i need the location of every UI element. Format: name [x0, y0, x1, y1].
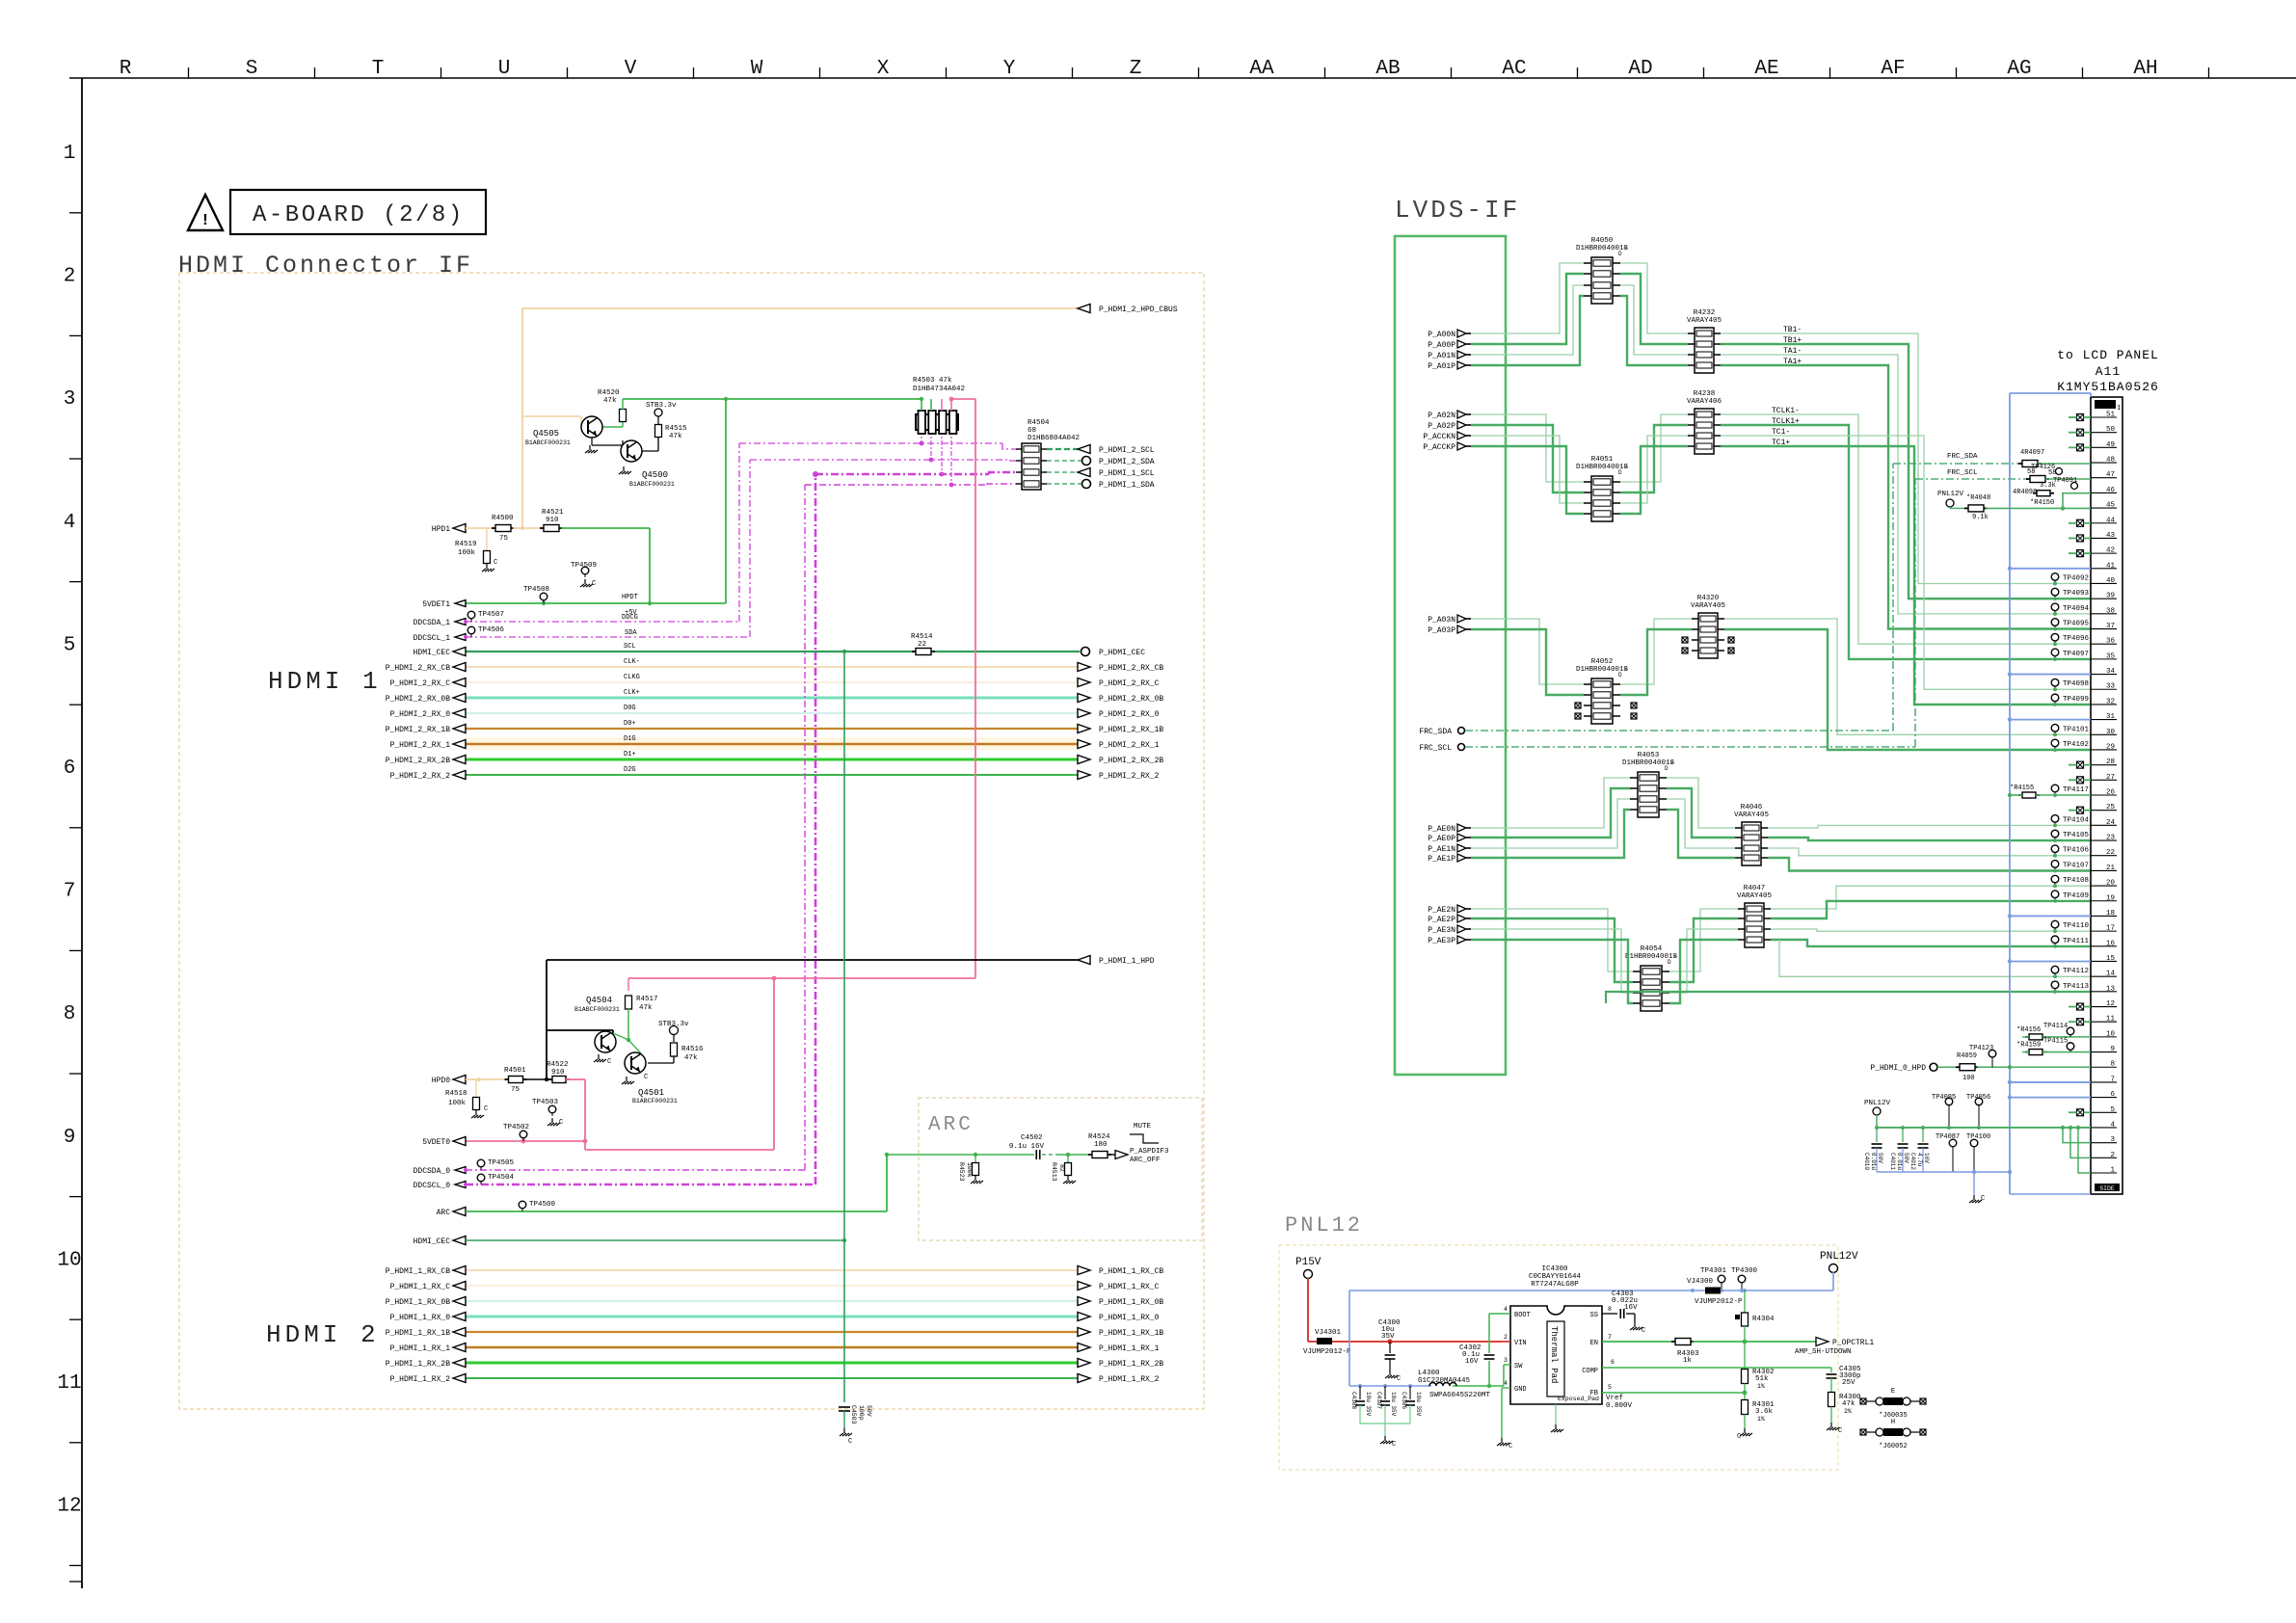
svg-text:P_AE1N: P_AE1N [1428, 845, 1455, 854]
svg-text:TP4509: TP4509 [571, 562, 597, 570]
svg-text:T: T [372, 58, 385, 80]
svg-text:11: 11 [2106, 1016, 2116, 1024]
svg-text:TP4300: TP4300 [1731, 1267, 1758, 1275]
svg-text:R4238: R4238 [1694, 390, 1716, 398]
svg-text:FRC_SDA: FRC_SDA [1419, 728, 1452, 736]
svg-text:P_HDMI_CEC: P_HDMI_CEC [1099, 649, 1145, 657]
svg-text:6: 6 [1611, 1359, 1615, 1366]
svg-text:TP4102: TP4102 [2063, 741, 2089, 749]
svg-text:SCL: SCL [624, 643, 636, 651]
svg-text:EN: EN [1590, 1340, 1598, 1347]
svg-text:43: 43 [2106, 532, 2116, 540]
svg-text:P_HDMI_2_RX_CB: P_HDMI_2_RX_CB [386, 664, 450, 673]
svg-text:47k: 47k [1842, 1400, 1855, 1408]
svg-text:B1ABCF000231: B1ABCF000231 [632, 1098, 678, 1104]
svg-text:C: C [559, 1119, 563, 1127]
svg-text:TP4095: TP4095 [2063, 621, 2090, 628]
svg-text:D1HB4734A042: D1HB4734A042 [913, 386, 965, 393]
svg-text:STB3.3v: STB3.3v [658, 1021, 689, 1028]
svg-text:<: < [1624, 666, 1628, 673]
svg-text:75: 75 [511, 1086, 521, 1094]
svg-text:C: C [1838, 1427, 1842, 1435]
svg-text:R: R [120, 58, 132, 80]
svg-text:TP4100: TP4100 [1966, 1133, 1990, 1141]
svg-text:34: 34 [2106, 668, 2116, 676]
svg-text:E: E [1891, 1388, 1895, 1396]
svg-text:TP4101: TP4101 [2063, 726, 2090, 733]
svg-text:TP4117: TP4117 [2063, 786, 2089, 794]
svg-text:1: 1 [64, 143, 76, 165]
svg-text:47k: 47k [669, 433, 682, 440]
svg-text:5VDET1: 5VDET1 [422, 600, 450, 609]
svg-text:*R4156: *R4156 [2016, 1026, 2041, 1034]
svg-text:20: 20 [2106, 880, 2116, 888]
svg-text:TP4104: TP4104 [2063, 816, 2090, 824]
svg-text:VJ4300: VJ4300 [1687, 1278, 1714, 1286]
svg-text:P_HDMI_2_RX_1B: P_HDMI_2_RX_1B [1099, 726, 1163, 734]
svg-text:DDCSDA_1: DDCSDA_1 [414, 619, 451, 627]
svg-text:27: 27 [2106, 774, 2115, 782]
svg-text:2%: 2% [1844, 1408, 1852, 1415]
svg-text:TP4502: TP4502 [503, 1124, 529, 1131]
svg-text:C: C [1397, 1375, 1401, 1383]
svg-text:R4051: R4051 [1591, 456, 1614, 464]
svg-text:3: 3 [1504, 1357, 1508, 1364]
svg-text:SS: SS [1590, 1312, 1598, 1319]
svg-text:33: 33 [2106, 683, 2116, 691]
svg-text:P_HDMI_1_RX_CB: P_HDMI_1_RX_CB [1099, 1267, 1163, 1276]
svg-text:0.01u: 0.01u [1870, 1153, 1877, 1170]
svg-text:R4232: R4232 [1694, 309, 1716, 317]
svg-text:TP4106: TP4106 [2063, 847, 2090, 855]
svg-text:P_HDMI_1_RX_2B: P_HDMI_1_RX_2B [1099, 1360, 1163, 1369]
svg-text:16V: 16V [1923, 1153, 1930, 1163]
svg-text:R4046: R4046 [1741, 804, 1763, 811]
svg-text:6: 6 [2110, 1091, 2115, 1099]
svg-text:R4500: R4500 [492, 515, 514, 522]
svg-text:P_ACCKP: P_ACCKP [1423, 443, 1455, 452]
svg-text:TP4097: TP4097 [2063, 651, 2089, 658]
svg-text:TP4126: TP4126 [2031, 464, 2055, 471]
svg-text:C: C [607, 1058, 611, 1066]
svg-text:2: 2 [64, 266, 76, 288]
svg-text:C: C [484, 1105, 488, 1113]
svg-text:28: 28 [2106, 758, 2115, 766]
svg-text:K1MY51BA0526: K1MY51BA0526 [2057, 380, 2159, 394]
svg-text:1%: 1% [1757, 1383, 1765, 1390]
svg-text:TP4091: TP4091 [2053, 477, 2077, 485]
svg-text:CLK+: CLK+ [624, 689, 640, 697]
svg-text:VJUMP2012-P: VJUMP2012-P [1695, 1298, 1743, 1306]
svg-text:100: 100 [1962, 1075, 1975, 1082]
svg-text:P_HDMI_1_RX_1: P_HDMI_1_RX_1 [1099, 1344, 1160, 1353]
svg-text:W: W [751, 58, 763, 80]
svg-text:HPD1: HPD1 [432, 525, 450, 534]
svg-text:P_AE2N: P_AE2N [1428, 906, 1455, 915]
svg-text:51k: 51k [1755, 1375, 1769, 1383]
svg-text:AG: AG [2007, 58, 2031, 80]
svg-text:P_HDMI_1_RX_2: P_HDMI_1_RX_2 [390, 1375, 451, 1384]
svg-text:P_A01P: P_A01P [1428, 362, 1455, 371]
svg-text:TA1+: TA1+ [1783, 358, 1802, 366]
svg-text:B1ABCF000231: B1ABCF000231 [525, 439, 571, 446]
svg-text:IC4300: IC4300 [1541, 1265, 1568, 1273]
svg-text:Thermal Pad: Thermal Pad [1549, 1326, 1559, 1383]
svg-text:TP4110: TP4110 [2063, 922, 2090, 930]
svg-text:AMP_SH-UTDOWN: AMP_SH-UTDOWN [1795, 1348, 1852, 1356]
svg-text:L4300: L4300 [1418, 1370, 1440, 1377]
svg-text:AC: AC [1502, 58, 1526, 80]
svg-text:D1HB6804A042: D1HB6804A042 [1028, 435, 1080, 442]
svg-text:R4523: R4523 [958, 1162, 965, 1182]
svg-text:P_HDMI_1_RX_0: P_HDMI_1_RX_0 [1099, 1314, 1160, 1322]
svg-text:P_HDMI_1_RX_C: P_HDMI_1_RX_C [1099, 1283, 1160, 1291]
svg-text:HDMI_CEC: HDMI_CEC [414, 649, 451, 657]
svg-text:4: 4 [2110, 1121, 2115, 1129]
svg-text:4.7u: 4.7u [1916, 1153, 1923, 1167]
svg-text:C4503: C4503 [850, 1405, 857, 1424]
svg-text:16V: 16V [1465, 1358, 1479, 1366]
svg-text:TP4092: TP4092 [2063, 574, 2089, 582]
svg-text:7: 7 [64, 881, 76, 903]
svg-text:TP4093: TP4093 [2063, 590, 2090, 598]
svg-text:32: 32 [2106, 698, 2115, 705]
svg-text:R4513: R4513 [1051, 1162, 1057, 1182]
svg-text:R4052: R4052 [1591, 658, 1614, 666]
svg-text:C: C [1981, 1195, 1985, 1203]
svg-text:TP4503: TP4503 [532, 1099, 559, 1106]
svg-text:P_HDMI_2_RX_1: P_HDMI_2_RX_1 [1099, 741, 1160, 750]
svg-text:P_HDMI_2_RX_CB: P_HDMI_2_RX_CB [1099, 664, 1163, 673]
svg-text:TP4109: TP4109 [2063, 892, 2089, 900]
svg-text:TP4114: TP4114 [2043, 1023, 2068, 1030]
svg-text:7: 7 [1608, 1334, 1612, 1341]
svg-text:TP4123: TP4123 [1969, 1045, 1993, 1052]
svg-text:TA1-: TA1- [1783, 347, 1802, 356]
svg-text:ARC: ARC [437, 1209, 451, 1217]
svg-text:22: 22 [2106, 849, 2115, 857]
svg-text:Q4501: Q4501 [638, 1088, 664, 1098]
svg-text:to LCD PANEL: to LCD PANEL [2057, 348, 2159, 362]
svg-text:P_HDMI_2_RX_C: P_HDMI_2_RX_C [1099, 679, 1160, 688]
svg-text:P_AE3P: P_AE3P [1428, 937, 1455, 945]
svg-text:TP4087: TP4087 [1936, 1133, 1960, 1141]
svg-text:HDMI 2: HDMI 2 [266, 1320, 380, 1349]
svg-text:4: 4 [64, 512, 76, 534]
svg-text:4: 4 [1504, 1306, 1508, 1313]
svg-text:ARC_OFF: ARC_OFF [1130, 1157, 1161, 1164]
svg-text:49: 49 [2106, 441, 2115, 449]
svg-text:0.800V: 0.800V [1606, 1402, 1633, 1410]
svg-text:51: 51 [2106, 412, 2116, 419]
svg-text:MUTE: MUTE [1134, 1123, 1152, 1131]
svg-text:SIDE: SIDE [2099, 1185, 2115, 1192]
svg-text:VJUMP2012-P: VJUMP2012-P [1303, 1348, 1351, 1356]
svg-text:P_HDMI_2_RX_0B: P_HDMI_2_RX_0B [386, 695, 450, 704]
svg-text:P_HDMI_2_RX_2: P_HDMI_2_RX_2 [390, 772, 451, 781]
svg-text:P_A02P: P_A02P [1428, 422, 1455, 431]
svg-text:14: 14 [2106, 971, 2116, 978]
svg-text:P_HDMI_2_RX_2: P_HDMI_2_RX_2 [1099, 772, 1160, 781]
svg-text:HPD0: HPD0 [432, 1077, 450, 1085]
svg-text:5: 5 [1608, 1384, 1612, 1391]
svg-text:C4502: C4502 [1021, 1134, 1043, 1142]
svg-text:Q4504: Q4504 [586, 996, 612, 1005]
svg-text:ARC: ARC [928, 1114, 974, 1136]
svg-text:TP4115: TP4115 [2043, 1038, 2068, 1046]
svg-text:50V: 50V [866, 1405, 872, 1417]
svg-text:9.1k: 9.1k [1972, 514, 1989, 521]
svg-text:68: 68 [1028, 427, 1036, 435]
svg-text:*R4048: *R4048 [1966, 494, 1990, 502]
svg-text:FRC_SDA: FRC_SDA [1947, 453, 1978, 461]
svg-text:3.6k: 3.6k [1755, 1408, 1774, 1416]
svg-text:C4306: C4306 [1401, 1392, 1407, 1409]
svg-text:P_HDMI_2_RX_0B: P_HDMI_2_RX_0B [1099, 695, 1163, 704]
svg-text:12: 12 [57, 1496, 81, 1518]
svg-text:R4304: R4304 [1752, 1316, 1775, 1323]
svg-text:VARAY405: VARAY405 [1691, 602, 1726, 610]
svg-text:TC1-: TC1- [1772, 428, 1790, 437]
svg-text:R4501: R4501 [504, 1067, 526, 1075]
svg-text:TP4098: TP4098 [2063, 680, 2089, 688]
svg-text:R4504: R4504 [1028, 419, 1050, 427]
svg-text:TCLK1+: TCLK1+ [1772, 417, 1800, 426]
svg-text:15: 15 [2106, 955, 2116, 963]
svg-text:P_HDMI_1_RX_CB: P_HDMI_1_RX_CB [386, 1267, 450, 1276]
svg-text:C: C [848, 1438, 852, 1446]
svg-text:100k: 100k [966, 1162, 973, 1178]
svg-text:P_HDMI_2_RX_0: P_HDMI_2_RX_0 [390, 710, 451, 719]
svg-text:<: < [1673, 953, 1677, 960]
svg-text:R4524: R4524 [1088, 1133, 1110, 1141]
svg-text:PNL12V: PNL12V [1820, 1251, 1858, 1263]
svg-text:100k: 100k [458, 549, 476, 557]
svg-text:TP4107: TP4107 [2063, 862, 2089, 869]
svg-text:R4515: R4515 [665, 425, 687, 433]
svg-text:10u 35V: 10u 35V [1365, 1392, 1372, 1417]
svg-text:C: C [1392, 1441, 1396, 1449]
svg-text:75: 75 [499, 535, 509, 543]
svg-text:35: 35 [2106, 652, 2116, 660]
svg-text:P_HDMI_0_HPD: P_HDMI_0_HPD [1870, 1064, 1926, 1073]
svg-text:*R4159: *R4159 [2016, 1042, 2041, 1050]
svg-text:31: 31 [2106, 713, 2116, 721]
svg-text:C: C [1508, 1443, 1512, 1450]
svg-text:P_HDMI_1_HPD: P_HDMI_1_HPD [1099, 957, 1155, 966]
svg-text:!: ! [200, 212, 210, 230]
svg-text:TCLK1-: TCLK1- [1772, 407, 1800, 415]
svg-text:11: 11 [57, 1372, 81, 1395]
svg-text:35V: 35V [1381, 1333, 1395, 1341]
svg-text:P_ACCKN: P_ACCKN [1423, 433, 1455, 441]
svg-text:V: V [625, 58, 637, 80]
svg-text:Q4505: Q4505 [533, 429, 559, 439]
svg-text:D0+: D0+ [624, 720, 636, 728]
svg-text:47k: 47k [603, 397, 617, 405]
svg-text:C4307: C4307 [1375, 1392, 1382, 1409]
svg-text:P_HDMI_1_RX_1: P_HDMI_1_RX_1 [390, 1344, 451, 1353]
svg-text:2: 2 [1504, 1334, 1508, 1341]
svg-text:C4010: C4010 [1863, 1153, 1870, 1170]
svg-text:P_HDMI_1_SCL: P_HDMI_1_SCL [1099, 469, 1155, 478]
svg-text:R4503 47k: R4503 47k [913, 377, 952, 385]
svg-text:TP4056: TP4056 [1966, 1094, 1990, 1102]
svg-text:A11: A11 [2096, 364, 2121, 379]
svg-text:D0G: D0G [624, 705, 636, 712]
svg-text:25: 25 [2106, 804, 2116, 811]
svg-text:5VDET0: 5VDET0 [422, 1138, 450, 1147]
svg-text:47: 47 [2106, 471, 2115, 479]
svg-text:P_HDMI_1_RX_2B: P_HDMI_1_RX_2B [386, 1360, 450, 1369]
svg-text:TP4500: TP4500 [529, 1201, 556, 1209]
svg-text:P_ASPDIF3: P_ASPDIF3 [1130, 1148, 1169, 1156]
svg-text:TP4085: TP4085 [1932, 1094, 1956, 1102]
svg-text:LVDS-IF: LVDS-IF [1395, 196, 1520, 225]
svg-text:P_HDMI_1_RX_0B: P_HDMI_1_RX_0B [1099, 1298, 1163, 1307]
svg-text:D: D [1618, 469, 1622, 476]
svg-text:P_HDMI_1_RX_1B: P_HDMI_1_RX_1B [386, 1329, 450, 1338]
svg-text:12: 12 [2106, 1000, 2115, 1008]
svg-text:B1ABCF000231: B1ABCF000231 [574, 1006, 620, 1013]
svg-text:P_HDMI_1_RX_1B: P_HDMI_1_RX_1B [1099, 1329, 1163, 1338]
svg-text:R4054: R4054 [1641, 945, 1663, 953]
svg-text:A-BOARD (2/8): A-BOARD (2/8) [253, 202, 465, 228]
svg-text:P_AE3N: P_AE3N [1428, 926, 1455, 935]
svg-text:22: 22 [918, 641, 926, 649]
svg-text:100k: 100k [448, 1100, 467, 1107]
svg-text:8: 8 [1608, 1306, 1612, 1313]
svg-text:36: 36 [2106, 638, 2116, 646]
svg-text:D1G: D1G [624, 735, 636, 743]
svg-text:10: 10 [2106, 1030, 2116, 1038]
svg-text:AA: AA [1249, 58, 1274, 80]
svg-text:C0CBAYY01644: C0CBAYY01644 [1529, 1273, 1582, 1281]
svg-text:AB: AB [1375, 58, 1400, 80]
svg-text:TP4111: TP4111 [2063, 938, 2090, 945]
svg-text:910: 910 [546, 517, 559, 524]
svg-text:C4308: C4308 [1350, 1392, 1357, 1409]
svg-text:17: 17 [2106, 925, 2115, 933]
svg-text:GND: GND [1514, 1386, 1527, 1394]
svg-text:39: 39 [2106, 593, 2115, 600]
svg-text:CLKG: CLKG [624, 674, 640, 681]
svg-text:P_HDMI_2_SCL: P_HDMI_2_SCL [1099, 446, 1155, 455]
svg-text:3: 3 [2110, 1136, 2115, 1144]
svg-text:P_A00P: P_A00P [1428, 341, 1455, 350]
svg-text:DDCSDA_0: DDCSDA_0 [414, 1167, 451, 1176]
svg-text:PNL12: PNL12 [1285, 1213, 1363, 1237]
svg-text:C: C [1642, 1327, 1645, 1335]
svg-text:R4518: R4518 [445, 1090, 467, 1098]
svg-text:P_HDMI_1_RX_2: P_HDMI_1_RX_2 [1099, 1375, 1160, 1384]
svg-text:P_HDMI_2_RX_2B: P_HDMI_2_RX_2B [1099, 757, 1163, 765]
svg-text:VARAY405: VARAY405 [1737, 892, 1773, 900]
svg-text:TP4105: TP4105 [2063, 832, 2090, 839]
svg-text:P_AE0N: P_AE0N [1428, 825, 1455, 834]
svg-text:9: 9 [64, 1127, 76, 1149]
svg-text:R4516: R4516 [681, 1046, 704, 1053]
svg-text:B1ABCF000231: B1ABCF000231 [629, 481, 675, 488]
svg-text:TP4094: TP4094 [2063, 605, 2090, 613]
svg-text:P_A01N: P_A01N [1428, 352, 1455, 360]
svg-text:PNL12V: PNL12V [1937, 491, 1964, 498]
svg-text:COMP: COMP [1582, 1368, 1598, 1375]
svg-text:P_AE0P: P_AE0P [1428, 835, 1455, 843]
svg-text:82: 82 [1058, 1164, 1065, 1172]
svg-text:Z: Z [1130, 58, 1142, 80]
svg-text:TB1-: TB1- [1783, 326, 1802, 334]
svg-text:DDCSCL_0: DDCSCL_0 [414, 1182, 451, 1190]
svg-text:<: < [1670, 759, 1674, 766]
svg-text:R4053: R4053 [1638, 752, 1660, 759]
svg-text:26: 26 [2106, 789, 2116, 797]
svg-text:P_OPCTRL1: P_OPCTRL1 [1832, 1339, 1874, 1347]
svg-text:47k: 47k [684, 1054, 698, 1062]
svg-text:R4514: R4514 [911, 633, 933, 641]
svg-text:BOOT: BOOT [1514, 1312, 1531, 1319]
svg-text:TP4508: TP4508 [523, 586, 549, 594]
svg-text:10u 35V: 10u 35V [1390, 1392, 1397, 1417]
svg-text:1: 1 [2117, 405, 2121, 412]
svg-text:P15V: P15V [1295, 1257, 1322, 1268]
svg-text:9: 9 [2110, 1046, 2115, 1053]
svg-text:D2G: D2G [624, 766, 636, 774]
svg-text:RT7247ALG8P: RT7247ALG8P [1531, 1281, 1579, 1289]
svg-text:HDMI 1: HDMI 1 [268, 667, 382, 696]
svg-text:C: C [644, 1074, 648, 1081]
svg-text:19: 19 [2106, 894, 2115, 902]
svg-text:P_HDMI_2_RX_2B: P_HDMI_2_RX_2B [386, 757, 450, 765]
svg-text:P_A02N: P_A02N [1428, 412, 1455, 420]
svg-text:P_HDMI_2_SDA: P_HDMI_2_SDA [1099, 458, 1155, 466]
svg-text:50V: 50V [1877, 1153, 1883, 1163]
svg-text:P_A03N: P_A03N [1428, 616, 1455, 625]
svg-text:VJ4301: VJ4301 [1315, 1329, 1342, 1337]
svg-text:AF: AF [1881, 58, 1905, 80]
svg-text:8: 8 [64, 1003, 76, 1025]
svg-text:TB1+: TB1+ [1783, 336, 1802, 345]
svg-text:H: H [1891, 1419, 1895, 1426]
svg-text:P_HDMI_2_RX_C: P_HDMI_2_RX_C [390, 679, 451, 688]
svg-text:DDCSCL_1: DDCSCL_1 [414, 634, 451, 643]
svg-text:16: 16 [2106, 940, 2116, 947]
svg-text:50: 50 [2106, 426, 2116, 434]
svg-text:R4059: R4059 [1957, 1052, 1977, 1060]
svg-text:P_A00N: P_A00N [1428, 331, 1455, 339]
svg-text:16V: 16V [1624, 1304, 1638, 1312]
svg-text:D1+: D1+ [624, 751, 636, 758]
svg-text:Vref: Vref [1606, 1395, 1624, 1402]
svg-text:30: 30 [2106, 729, 2116, 736]
svg-text:AH: AH [2133, 58, 2157, 80]
svg-text:40: 40 [2106, 577, 2116, 585]
svg-text:HDMI_CEC: HDMI_CEC [414, 1237, 451, 1246]
svg-text:48: 48 [2106, 457, 2115, 465]
svg-text:S: S [246, 58, 258, 80]
svg-text:TP4504: TP4504 [488, 1174, 515, 1182]
svg-text:TP4108: TP4108 [2063, 877, 2089, 885]
svg-text:PNL12V: PNL12V [1864, 1100, 1891, 1107]
svg-text:C4012: C4012 [1909, 1153, 1916, 1170]
svg-text:2: 2 [2110, 1152, 2115, 1159]
svg-text:3: 3 [64, 388, 76, 411]
svg-text:41: 41 [2106, 562, 2116, 570]
svg-text:VARAY406: VARAY406 [1687, 398, 1722, 406]
svg-text:SWPA6045S220MT: SWPA6045S220MT [1429, 1392, 1491, 1399]
svg-text:D: D [1665, 765, 1669, 772]
svg-text:R4320: R4320 [1697, 595, 1720, 602]
